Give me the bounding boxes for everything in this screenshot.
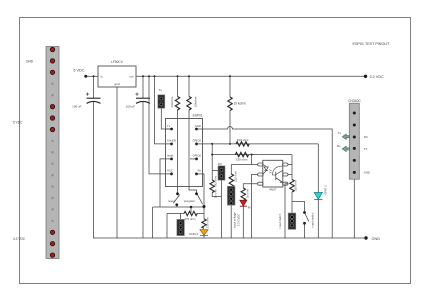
capacitor C1 100uF [72, 75, 100, 238]
svg-text:3.3 VDC: 3.3 VDC [13, 237, 26, 241]
capacitor C2 100uF [126, 75, 150, 238]
svg-text:VCC: VCC [167, 169, 173, 173]
svg-text:GND: GND [372, 237, 381, 241]
wire input-voltage header to ground [230, 205, 232, 238]
wire CH-EN feed (rail to ESP01 CH-EN) [154, 75, 166, 144]
IC U2 ESP01 module [166, 114, 203, 187]
svg-text:470 ohm: 470 ohm [185, 217, 197, 221]
wire ESP01 GND to ground (with hop over R3) [203, 127, 333, 238]
wire opto pin6 to output net [288, 164, 292, 166]
svg-text:330 ohm: 330 ohm [294, 179, 298, 191]
op-amp U3 optocoupler 4N37 [258, 160, 288, 191]
svg-text:ESP01 TEST PINOUT: ESP01 TEST PINOUT [353, 42, 390, 46]
svg-text:gnd: gnd [114, 82, 119, 86]
wire Tx header to ESP01 Tx pin [161, 108, 171, 129]
wire branch down to opto pin1 [251, 155, 253, 165]
svg-text:ESP01: ESP01 [193, 114, 203, 118]
svg-text:330 ohm: 330 ohm [236, 158, 248, 162]
svg-text:3.3 CVDC: 3.3 CVDC [236, 214, 240, 227]
node opto anode branch [251, 154, 253, 156]
node 5 VDC (regulator input) [73, 69, 87, 78]
wire opto pin2 to ground [252, 175, 258, 239]
svg-text:1k ohm: 1k ohm [245, 188, 249, 198]
wire GPIO2 net [203, 143, 319, 145]
switch SW2 program [184, 192, 205, 207]
svg-text:GPIO0: GPIO0 [192, 154, 201, 158]
wire VCC feed (rail to ESP01 VCC) [148, 75, 166, 174]
wire opto output to input switch [292, 202, 305, 212]
svg-text:2k ohm - 2k2 ohm: 2k ohm - 2k2 ohm [214, 175, 218, 198]
arrow Rx (into CH340C TX) [337, 144, 349, 152]
wire branch to opto input net [212, 144, 292, 155]
LED D2 IR (red) [240, 200, 252, 238]
svg-text:GND-0: GND-0 [189, 232, 199, 236]
svg-text:220 ohm: 220 ohm [233, 170, 237, 182]
svg-text:Tx: Tx [159, 88, 163, 92]
resistor R3 10 kohm (GPIO0 pullup) [228, 75, 246, 145]
svg-text:100 uF: 100 uF [72, 105, 82, 109]
svg-text:10 kohm: 10 kohm [234, 102, 247, 106]
node 3.2 VDC [364, 75, 384, 79]
resistor R2 10kohm (reset pullup) [187, 75, 198, 194]
header J6 input voltage 3.3 VDC (4-pin) [227, 186, 240, 228]
switch SW3 input switch [303, 211, 315, 238]
arrow Tx (into CH340C RX) [338, 131, 349, 139]
svg-text:LF50CV: LF50CV [111, 60, 124, 64]
LED D3 status (orange) [200, 230, 208, 238]
svg-text:CH340C: CH340C [348, 99, 361, 103]
resistor R6 330 ohm (opto output) [290, 155, 298, 213]
LED D1 GPIO 2 (cyan) [314, 144, 327, 238]
wire opto pin4 to ground [285, 184, 288, 238]
svg-text:330 ohm: 330 ohm [237, 138, 249, 142]
ground rail (bottom) [93, 237, 366, 239]
header J4 RX (2-pin) [212, 162, 225, 180]
connector J1 (left breadboard power strip) [46, 47, 59, 259]
header J2 Tx (2-pin) [158, 88, 165, 108]
wire opto pin5 to output net [288, 174, 292, 176]
svg-text:GND: GND [195, 124, 201, 128]
resistor R9 1k ohm [241, 184, 258, 201]
svg-text:TX: TX [364, 147, 368, 151]
svg-text:GPIO2: GPIO2 [192, 139, 201, 143]
svg-text:330 ohm: 330 ohm [205, 217, 209, 229]
svg-text:program: program [184, 199, 196, 203]
voltage regulator U1 LF50CV [98, 60, 136, 87]
svg-text:input switch: input switch [278, 213, 282, 228]
resistor R10 470 ohm (horizontal) [167, 211, 204, 238]
svg-text:input switch: input switch [311, 212, 315, 227]
resistor R1 10kohm (CH-EN pullup) [170, 75, 180, 194]
svg-text:GPIO 2: GPIO 2 [323, 185, 327, 195]
svg-text:CH-EN: CH-EN [167, 139, 176, 143]
node GND (bottom right) [364, 236, 380, 241]
wire 5VDC to regulator in [86, 75, 98, 77]
svg-text:in: in [101, 75, 104, 79]
resistor R7 2k ohm - 2k2 ohm [210, 154, 221, 199]
wire switch common row [153, 206, 206, 238]
resistor R5 330 ohm (opto drive) [235, 152, 248, 161]
svg-text:GND: GND [364, 171, 370, 175]
svg-text:Rx: Rx [198, 169, 202, 173]
header J5 input switch (3-pin) [278, 213, 296, 229]
svg-text:5 VDC: 5 VDC [73, 69, 84, 73]
wire RX header to ground [220, 180, 222, 238]
wire CH340C GND to ground rail [353, 179, 355, 238]
svg-text:10kohm: 10kohm [170, 96, 174, 107]
wire 3.3V output rail [136, 75, 366, 77]
svg-text:3.2 VDC: 3.2 VDC [370, 75, 385, 79]
wire Rx row down to LED column [203, 174, 205, 207]
connector J7 CH340C [348, 99, 370, 179]
node GPIO2 branch [211, 143, 213, 145]
svg-text:GND: GND [26, 60, 34, 64]
svg-text:RX: RX [364, 135, 368, 139]
svg-text:4N37: 4N37 [269, 188, 277, 192]
svg-text:reset: reset [167, 154, 173, 158]
svg-text:Rx: Rx [337, 144, 341, 148]
svg-text:RX: RX [218, 162, 222, 166]
header J3 GND-0 (3-pin) [177, 214, 199, 237]
switch SW1 reset [168, 192, 180, 207]
wire reset row to switch net [160, 159, 166, 207]
wire regulator gnd to ground rail [116, 87, 118, 238]
svg-text:100 uF: 100 uF [126, 105, 136, 109]
wire 220-ohm top / opto pin1 row [231, 164, 257, 166]
svg-text:out: out [129, 75, 133, 79]
svg-text:10kohm: 10kohm [193, 96, 197, 107]
svg-text:5 VDC: 5 VDC [13, 121, 23, 125]
resistor R8 220 ohm [229, 165, 237, 188]
resistor R4 330 ohm (in GPIO2 wire) [236, 138, 249, 146]
resistor R11 330 ohm (status LED) [202, 207, 210, 228]
